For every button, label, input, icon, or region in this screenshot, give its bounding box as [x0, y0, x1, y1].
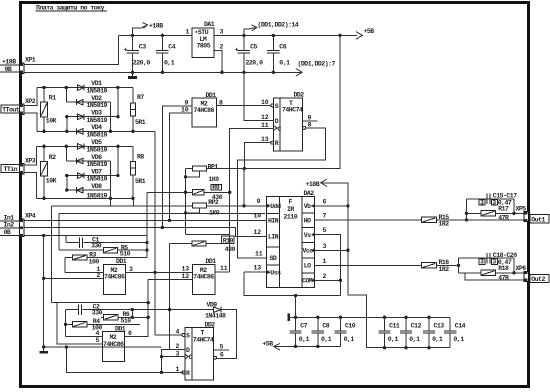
- wire XP1 +18В to rail riser: [24, 35, 118, 64]
- wire gate A pin10 from In1: [170, 113, 192, 220]
- wire VD9 cathode to FF2 out6: [217, 310, 237, 359]
- svg-text:1N5819: 1N5819: [87, 131, 108, 138]
- wire VD8 row: [67, 189, 111, 191]
- svg-text:R17: R17: [498, 205, 509, 212]
- wire XP3 pin2 down: [24, 173, 36, 199]
- wire gate pin1: [65, 271, 104, 273]
- svg-text:VD1: VD1: [91, 80, 102, 87]
- wire FF1 C: [230, 129, 274, 273]
- wire V51.6: [51, 206, 53, 302]
- svg-text:2: 2: [323, 273, 327, 280]
- label Out2: [530, 274, 549, 283]
- node C5 top: [242, 34, 245, 37]
- svg-text:1R2: 1R2: [439, 221, 450, 228]
- svg-text:10: 10: [261, 99, 269, 106]
- resistor R9: [147, 184, 231, 201]
- connector XP6: [516, 265, 529, 281]
- bubble FF1 S: [271, 104, 274, 107]
- wire lower block top row: [459, 257, 514, 259]
- svg-text:F: F: [289, 198, 293, 205]
- svg-text:XP4: XP4: [25, 213, 36, 220]
- svg-text:1N4148: 1N4148: [205, 312, 226, 319]
- node C1 right: [145, 241, 148, 244]
- regulator DA1: [186, 21, 224, 72]
- node R16 out: [457, 264, 460, 267]
- connector XP4: [19, 213, 36, 237]
- wire FF1 D from 0В rail: [244, 72, 274, 120]
- svg-text:R: R: [186, 370, 190, 377]
- svg-text:R8: R8: [137, 154, 144, 161]
- wire ground drop to cap rail: [295, 296, 297, 318]
- svg-text:DD1: DD1: [116, 258, 127, 265]
- svg-text:RP1: RP1: [208, 163, 219, 170]
- svg-text:R7: R7: [137, 94, 144, 101]
- wire rail VD1-VD3 right: [117, 88, 119, 117]
- svg-text:ТТout: ТТout: [2, 106, 20, 113]
- wire VD3 row: [67, 116, 118, 118]
- svg-text:3: 3: [492, 199, 496, 206]
- svg-text:DD2: DD2: [294, 91, 305, 98]
- svg-text:+Udd: +Udd: [267, 203, 281, 210]
- svg-text:0,1: 0,1: [344, 336, 355, 343]
- wire In2 row: [24, 228, 267, 237]
- capacitor C8: [312, 317, 332, 346]
- diode VD8: [76, 183, 107, 199]
- wire VD7 row: [67, 175, 118, 177]
- wire upper block left rail: [465, 199, 467, 220]
- svg-text:C: C: [277, 126, 281, 133]
- svg-text:3: 3: [492, 259, 496, 266]
- svg-text:220,0: 220,0: [133, 60, 151, 67]
- svg-text:6: 6: [220, 352, 224, 359]
- svg-text:7: 7: [323, 213, 327, 220]
- svg-text:1R2: 1R2: [439, 266, 450, 273]
- capacitor C4: [156, 35, 176, 72]
- svg-text:1К0: 1К0: [209, 209, 220, 216]
- svg-text:0,1: 0,1: [409, 336, 420, 343]
- svg-text:C12: C12: [411, 323, 422, 330]
- svg-text:10: 10: [254, 213, 262, 220]
- XOR gate DD1.3 (pins 4,5,6): [96, 325, 133, 361]
- wire C1 loop left: [65, 236, 67, 243]
- node +5В branch: [338, 34, 341, 37]
- node C3 bottom: [131, 71, 134, 74]
- svg-text:13: 13: [254, 265, 262, 272]
- wire Vcc row: [314, 249, 348, 251]
- wire 0В rail: [24, 71, 296, 73]
- svg-text:330: 330: [91, 243, 102, 250]
- svg-text:47R: 47R: [498, 275, 509, 282]
- wire XP3 bottom bus: [36, 198, 133, 206]
- svg-text:XP5: XP5: [516, 206, 527, 213]
- svg-text:1N5819: 1N5819: [87, 102, 108, 109]
- diode VD3: [78, 110, 108, 124]
- svg-text:10К: 10К: [46, 118, 57, 125]
- svg-text:1N5819: 1N5819: [87, 192, 108, 199]
- capacitor C11: [378, 317, 400, 347]
- svg-text:74НС86: 74НС86: [104, 274, 125, 281]
- svg-text:1N5819: 1N5819: [87, 117, 108, 124]
- svg-text:5: 5: [220, 344, 224, 351]
- svg-text:1N5819: 1N5819: [87, 88, 108, 95]
- svg-text:R1: R1: [49, 95, 56, 102]
- wire feedback line y213: [59, 212, 265, 214]
- node R6 link bottom: [131, 316, 134, 319]
- label Out1: [530, 215, 549, 224]
- connector XP3: [19, 158, 36, 174]
- svg-text:74НС74: 74НС74: [282, 107, 303, 114]
- svg-text:+5В: +5В: [364, 28, 375, 35]
- svg-text:47R: 47R: [498, 215, 509, 222]
- svg-text:XP3: XP3: [25, 158, 36, 165]
- svg-text:VD7: VD7: [91, 168, 102, 175]
- wire gate B output row: [126, 271, 193, 273]
- resistor R8: [130, 146, 145, 200]
- svg-text:0,1: 0,1: [279, 60, 290, 67]
- svg-text:7805: 7805: [197, 43, 211, 50]
- svg-text:VD6: VD6: [91, 154, 102, 161]
- wire rail VD1-VD2 left: [65, 88, 67, 103]
- capacitor C12: [400, 317, 422, 347]
- wire C2 left down to gate pin4: [65, 310, 67, 337]
- wire lower block right rail: [513, 258, 515, 273]
- resistor R6: [101, 311, 148, 324]
- svg-text:220,0: 220,0: [246, 60, 264, 67]
- wire gate C output up: [215, 271, 230, 273]
- svg-text:10К: 10К: [46, 177, 57, 184]
- wire 0В down to ground: [43, 236, 45, 347]
- wire +18В top rail: [118, 34, 192, 36]
- wire FF2 out5 stub: [214, 349, 229, 351]
- wire COM row: [314, 279, 340, 281]
- wire gate D output up: [125, 280, 149, 337]
- wire upper block right rail: [513, 199, 515, 214]
- svg-text:DD1: DD1: [206, 258, 217, 265]
- node FF2 R tie: [160, 371, 163, 374]
- svg-text:Out2: Out2: [531, 276, 545, 283]
- svg-text:VD5: VD5: [91, 139, 102, 146]
- svg-text:DA2: DA2: [304, 190, 315, 197]
- svg-text:510: 510: [120, 251, 131, 258]
- wire Vs down to COM: [314, 235, 340, 296]
- svg-text:+18В: +18В: [306, 181, 320, 188]
- svg-text:5: 5: [96, 337, 100, 344]
- diode VD1: [78, 80, 108, 94]
- node C6 bottom: [272, 71, 275, 74]
- svg-text:5: 5: [323, 227, 327, 234]
- svg-text:+: +: [235, 47, 239, 54]
- svg-text:(DD1,DD2):7: (DD1,DD2):7: [298, 61, 336, 68]
- wire lower block out2 drop: [465, 273, 524, 280]
- svg-text:C7: C7: [300, 323, 307, 330]
- wire bundle V 147: [146, 192, 148, 257]
- svg-text:DD1: DD1: [115, 325, 126, 332]
- resistor R17: [466, 205, 524, 221]
- capacitor C3: [124, 35, 151, 72]
- pin marks DA2: [267, 204, 270, 208]
- svg-text:3: 3: [323, 243, 327, 250]
- +18В arrow DA2: [306, 179, 328, 188]
- connector XP2: [19, 98, 36, 114]
- wire FF2 C row: [162, 356, 185, 358]
- wire XP3 pin1 up: [24, 146, 36, 165]
- ground symbol bottom left: [39, 347, 48, 352]
- svg-text:+: +: [124, 47, 128, 54]
- svg-text:13: 13: [261, 136, 269, 143]
- ground bar left of cap rail: [287, 313, 290, 321]
- wire upper block top row: [466, 198, 514, 200]
- wire VD2 row: [66, 101, 110, 103]
- svg-text:5R1: 5R1: [135, 119, 146, 126]
- resistor R4: [66, 318, 141, 331]
- wire +Udd line: [52, 205, 193, 207]
- svg-text:+Uss: +Uss: [267, 270, 281, 277]
- svg-text:330: 330: [92, 310, 103, 317]
- wire XP2 pin2 down: [24, 113, 37, 131]
- svg-text:C3: C3: [139, 44, 146, 51]
- capacitor C14: [444, 317, 466, 347]
- svg-text:1К0: 1К0: [209, 176, 220, 183]
- svg-text:S: S: [186, 332, 190, 339]
- label +18В: [2, 59, 16, 66]
- svg-text:R: R: [275, 140, 279, 147]
- svg-text:C5: C5: [250, 44, 257, 51]
- label 0В: [5, 66, 12, 73]
- svg-text:Vb: Vb: [304, 203, 311, 210]
- wire R5 left riser: [58, 213, 60, 250]
- svg-text:DD2: DD2: [205, 321, 216, 328]
- svg-text:74НС74: 74НС74: [193, 336, 214, 343]
- svg-text:RP2: RP2: [208, 199, 219, 206]
- node C6 top: [272, 34, 275, 37]
- svg-text:+18В: +18В: [149, 23, 163, 30]
- svg-text:ТТin: ТТin: [4, 166, 18, 173]
- capacitor C18-C20: [479, 252, 517, 266]
- wire RP1 left net down: [185, 169, 187, 235]
- wire +5В to +Udd: [243, 169, 245, 206]
- svg-text:(DD1,DD2):14: (DD1,DD2):14: [258, 22, 299, 29]
- diode VD6: [76, 154, 107, 168]
- wire R3 to gate pin1: [64, 258, 66, 273]
- wire +5В vertical from top: [206, 35, 340, 168]
- svg-text:C10: C10: [345, 323, 356, 330]
- svg-text:COM: COM: [302, 278, 313, 285]
- svg-text:C14: C14: [455, 323, 466, 330]
- wire rail VD5-VD6 left: [65, 146, 67, 161]
- svg-text:0,1: 0,1: [388, 336, 399, 343]
- resistor R18: [459, 265, 524, 282]
- svg-text:2110: 2110: [284, 214, 298, 221]
- title: [36, 5, 105, 12]
- wire rail VD7-VD8 left: [66, 176, 68, 191]
- svg-text:C6: C6: [279, 44, 286, 51]
- svg-text:1N5819: 1N5819: [87, 176, 108, 183]
- label ТТout: [1, 105, 20, 114]
- svg-text:D: D: [186, 347, 190, 354]
- diode VD9: [205, 301, 226, 319]
- wire +5В cap bottom rail: [274, 345, 341, 347]
- label In1: [4, 215, 15, 222]
- resistor R1: [41, 86, 57, 133]
- wire XP2 top row: [37, 87, 133, 89]
- svg-text:VD2: VD2: [91, 95, 102, 102]
- arrow (DD1,DD2):7: [296, 61, 336, 77]
- svg-text:DD1: DD1: [206, 92, 217, 99]
- svg-text:4: 4: [176, 328, 180, 335]
- svg-text:1: 1: [186, 29, 190, 36]
- svg-text:IR: IR: [287, 206, 294, 213]
- wire HO row to R15: [314, 219, 421, 221]
- svg-text:C13: C13: [434, 323, 445, 330]
- wire +Uss loop under chip: [244, 272, 340, 296]
- svg-text:2: 2: [220, 44, 224, 51]
- wire gate C pin12: [148, 279, 193, 281]
- arrow +5В top: [356, 28, 374, 39]
- svg-text:C8: C8: [322, 323, 329, 330]
- wire C2 upper row: [57, 302, 148, 304]
- svg-text:12: 12: [254, 229, 262, 236]
- connector XP1: [19, 57, 36, 74]
- svg-text:HIN: HIN: [268, 217, 279, 224]
- svg-text:C: C: [189, 354, 193, 361]
- wire FF1 out9 stub: [303, 120, 318, 122]
- node +Udd / +5В branch: [242, 204, 245, 207]
- resistor R16: [422, 259, 459, 273]
- wire gate pin2: [44, 277, 104, 279]
- svg-text:LIN: LIN: [268, 234, 279, 241]
- svg-text:VD4: VD4: [91, 124, 102, 131]
- svg-text:0,1: 0,1: [321, 336, 332, 343]
- svg-text:XP6: XP6: [516, 265, 527, 272]
- wire LO row to R16: [314, 264, 421, 266]
- +5В arrow bottom: [262, 340, 280, 350]
- wire cap top rail (ground): [289, 316, 451, 318]
- svg-text:Out1: Out1: [531, 216, 545, 223]
- svg-text:510: 510: [121, 317, 132, 324]
- node C2 upper right: [147, 301, 150, 304]
- svg-text:SD: SD: [270, 255, 277, 262]
- node VD1 right rail: [116, 86, 119, 89]
- resistor R5: [59, 244, 147, 257]
- capacitor C6: [267, 35, 290, 72]
- wire In1 row to HIN: [24, 219, 267, 221]
- svg-text:R9: R9: [212, 184, 219, 191]
- svg-text:9: 9: [257, 198, 261, 205]
- wire rail VD6-VD8 down to bus: [109, 161, 111, 206]
- wire XP2 bus down V156: [154, 131, 156, 335]
- wire cap bottom rail C11-C14 (+18В): [367, 347, 451, 349]
- XOR gate DD1.1 (pins 9,10,8): [181, 92, 223, 127]
- wire +Uss pin row: [244, 271, 267, 273]
- svg-text:DA1: DA1: [204, 21, 215, 28]
- svg-text:3: 3: [480, 199, 484, 206]
- svg-text:13: 13: [182, 266, 190, 273]
- svg-text:100: 100: [89, 258, 100, 265]
- wire rail VD2-VD4 right: [109, 102, 111, 131]
- svg-text:XP1: XP1: [25, 57, 36, 64]
- wire ground bottom left: [44, 346, 162, 348]
- diode VD5: [78, 139, 108, 153]
- svg-text:5R1: 5R1: [135, 178, 146, 185]
- svg-text:1: 1: [176, 366, 180, 373]
- flip-flop DD2.1: [261, 91, 312, 150]
- resistor R3: [65, 252, 147, 266]
- svg-text:S: S: [275, 103, 279, 110]
- svg-text:Плата защиты по току: Плата защиты по току: [36, 5, 105, 12]
- flip-flop DD2.2: [176, 321, 224, 380]
- clock triangle FF1: [274, 126, 277, 131]
- wire FF1 R to +5В rail: [244, 143, 270, 169]
- bubble FF1 out8: [303, 126, 306, 129]
- wire gate A out to FF1 S: [217, 104, 271, 106]
- svg-text:VD3: VD3: [91, 110, 102, 117]
- svg-text:HO: HO: [304, 217, 311, 224]
- svg-text:R2: R2: [49, 154, 56, 161]
- svg-text:VD9: VD9: [207, 301, 218, 308]
- resistor R10: [170, 236, 236, 253]
- svg-text:C11: C11: [389, 323, 400, 330]
- node R5 right: [145, 248, 148, 251]
- arrow (DD1,DD2):14: [244, 22, 299, 36]
- svg-text:6: 6: [323, 198, 327, 205]
- svg-text:3: 3: [480, 259, 484, 266]
- svg-text:Vs: Vs: [304, 232, 311, 239]
- wire Vb row: [314, 205, 348, 207]
- svg-text:LO: LO: [304, 263, 311, 270]
- svg-text:C4: C4: [168, 44, 175, 51]
- wire XP2 pin1 up: [24, 88, 37, 106]
- svg-text:0,1: 0,1: [299, 336, 310, 343]
- node DA1 pin2: [220, 71, 223, 74]
- wire XP3 top row: [36, 145, 133, 147]
- wire gate A pin9 from In2: [162, 106, 192, 228]
- wire gate pin5: [57, 303, 103, 345]
- potentiometer RP2: [186, 199, 220, 216]
- wire RP-wiper line to gate C out: [186, 233, 230, 235]
- wire FF1 out8 feedback to SD: [237, 128, 325, 258]
- svg-text:XP2: XP2: [25, 98, 36, 105]
- wire rail VD5-VD7 right: [117, 146, 119, 175]
- capacitor C10: [334, 317, 356, 346]
- node C4 top: [161, 34, 164, 37]
- svg-text:74НС86: 74НС86: [194, 107, 215, 114]
- wire +18В down rail: [321, 183, 367, 348]
- connector XP5: [516, 206, 529, 222]
- node C2/R6 link top: [131, 308, 134, 311]
- driver DA2 IR2110: [254, 190, 327, 287]
- capacitor C13: [423, 317, 445, 347]
- svg-text:1: 1: [323, 258, 327, 265]
- potentiometer RP1: [186, 163, 220, 183]
- svg-text:D: D: [275, 118, 279, 125]
- wire lower block left rail: [458, 258, 460, 273]
- node 0В down branch: [42, 234, 45, 237]
- +18В arrow top: [133, 28, 141, 35]
- label In2: [4, 222, 15, 229]
- svg-text:R10: R10: [223, 237, 234, 244]
- svg-text:1N5819: 1N5819: [87, 146, 108, 153]
- node VD5 right rail: [116, 145, 119, 148]
- resistor R15: [422, 214, 525, 228]
- diode VD7: [78, 168, 108, 182]
- node gate D fb / R6: [147, 316, 150, 319]
- wire rail VD3-VD4 left: [66, 117, 68, 132]
- diode VD2: [76, 95, 107, 109]
- svg-text:+5В: +5В: [262, 340, 273, 347]
- svg-text:11: 11: [220, 265, 228, 272]
- svg-text:3: 3: [220, 29, 224, 36]
- wire gate pin4: [66, 336, 103, 338]
